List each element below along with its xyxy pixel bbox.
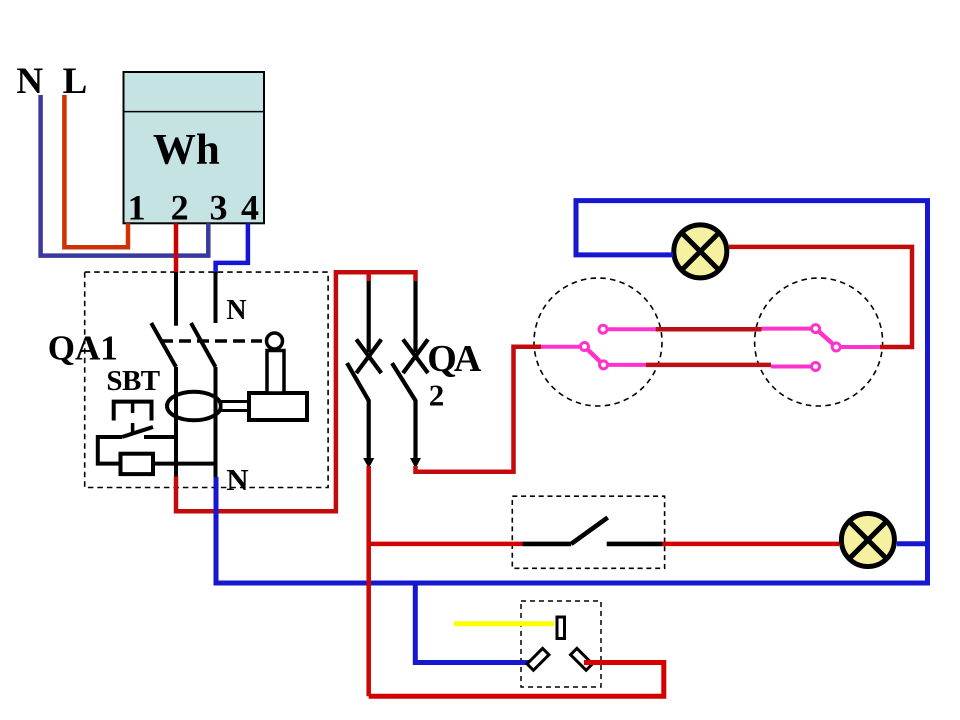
svg-text:1: 1 bbox=[128, 188, 146, 228]
svg-text:4: 4 bbox=[241, 188, 259, 228]
svg-text:2: 2 bbox=[171, 188, 189, 228]
svg-text:2: 2 bbox=[429, 378, 445, 413]
svg-text:Wh: Wh bbox=[153, 127, 220, 174]
svg-text:3: 3 bbox=[210, 188, 228, 228]
svg-text:N: N bbox=[226, 295, 246, 326]
svg-text:QA: QA bbox=[427, 338, 482, 380]
svg-text:QA1: QA1 bbox=[48, 329, 118, 368]
svg-text:SBT: SBT bbox=[106, 365, 159, 397]
svg-text:N: N bbox=[226, 462, 248, 497]
